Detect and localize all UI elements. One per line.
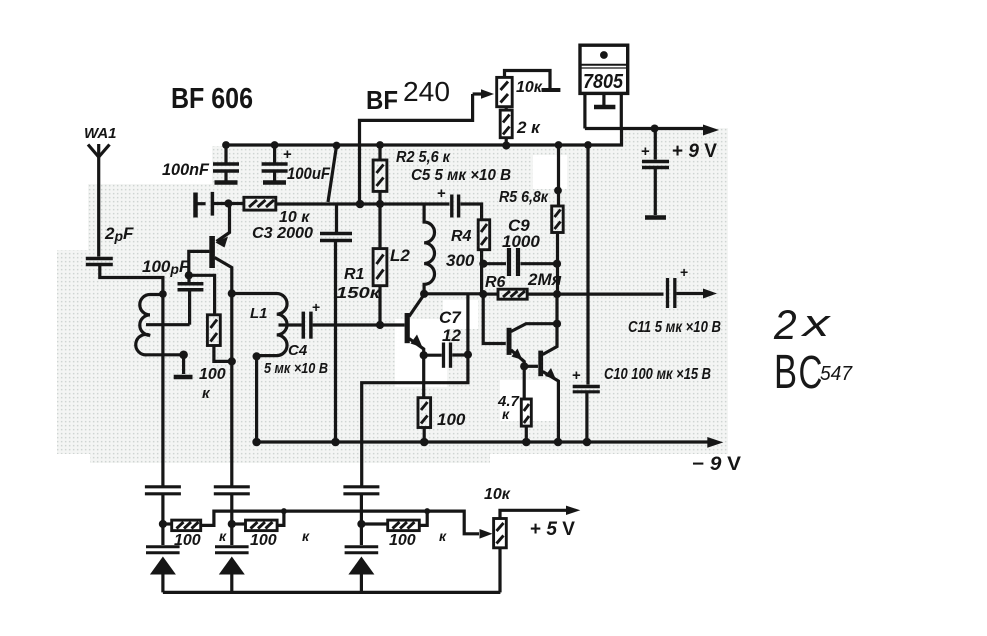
svg-text:100pF: 100pF	[142, 257, 190, 277]
svg-text:+: +	[312, 299, 320, 315]
svg-text:2: 2	[773, 301, 797, 348]
svg-text:100: 100	[250, 532, 277, 549]
svg-text:BF: BF	[366, 85, 398, 115]
svg-text:100: 100	[389, 532, 416, 549]
svg-text:+ 9 V: + 9 V	[672, 141, 717, 162]
svg-text:C: C	[798, 348, 822, 398]
svg-text:2 к: 2 к	[516, 118, 541, 137]
svg-text:C3 2000: C3 2000	[252, 225, 313, 242]
svg-text:BF 606: BF 606	[171, 83, 253, 115]
svg-text:547: 547	[820, 363, 853, 385]
svg-text:х: х	[800, 303, 833, 345]
svg-text:B: B	[774, 344, 797, 398]
svg-text:1000: 1000	[502, 232, 540, 251]
svg-text:R4: R4	[451, 228, 472, 245]
svg-text:C4: C4	[288, 342, 308, 359]
svg-text:C5 5 мк ×10 В: C5 5 мк ×10 В	[411, 167, 511, 184]
svg-text:к: к	[302, 528, 310, 544]
svg-text:L1: L1	[250, 305, 268, 322]
svg-text:к: к	[502, 406, 510, 422]
svg-text:− 9 V: − 9 V	[692, 454, 741, 475]
svg-text:+: +	[641, 143, 650, 160]
svg-text:+: +	[437, 185, 446, 202]
svg-text:+: +	[572, 367, 581, 384]
svg-text:к: к	[219, 528, 227, 544]
svg-text:+ 5 V: + 5 V	[530, 519, 575, 540]
svg-text:100: 100	[199, 366, 226, 383]
svg-text:7805: 7805	[583, 71, 624, 93]
svg-text:100uF: 100uF	[287, 164, 331, 183]
svg-text:5 мк ×10 В: 5 мк ×10 В	[264, 360, 328, 377]
svg-text:R1: R1	[344, 266, 365, 283]
svg-text:100: 100	[437, 410, 466, 429]
svg-text:C10 100 мк ×15 В: C10 100 мк ×15 В	[604, 366, 711, 383]
svg-text:к: к	[439, 528, 447, 544]
svg-text:C11 5 мк ×10 В: C11 5 мк ×10 В	[628, 319, 721, 336]
svg-text:+: +	[680, 264, 688, 280]
svg-text:240: 240	[403, 76, 450, 107]
svg-text:10к: 10к	[484, 486, 511, 503]
svg-text:C7: C7	[439, 308, 462, 327]
svg-text:R2 5,6 к: R2 5,6 к	[396, 149, 451, 166]
svg-text:10 к: 10 к	[279, 209, 310, 226]
svg-text:R5 6,8к: R5 6,8к	[499, 189, 549, 206]
svg-text:R6: R6	[485, 274, 506, 291]
svg-text:300: 300	[446, 251, 475, 270]
svg-text:12: 12	[442, 326, 461, 345]
svg-text:100nF: 100nF	[162, 160, 210, 179]
svg-text:150к: 150к	[336, 285, 381, 302]
svg-text:L2: L2	[390, 246, 410, 265]
svg-text:100: 100	[174, 532, 201, 549]
svg-text:+: +	[283, 146, 292, 163]
svg-text:2Mя: 2Mя	[527, 270, 562, 289]
svg-text:10к: 10к	[516, 79, 543, 96]
svg-text:WA1: WA1	[84, 125, 117, 142]
